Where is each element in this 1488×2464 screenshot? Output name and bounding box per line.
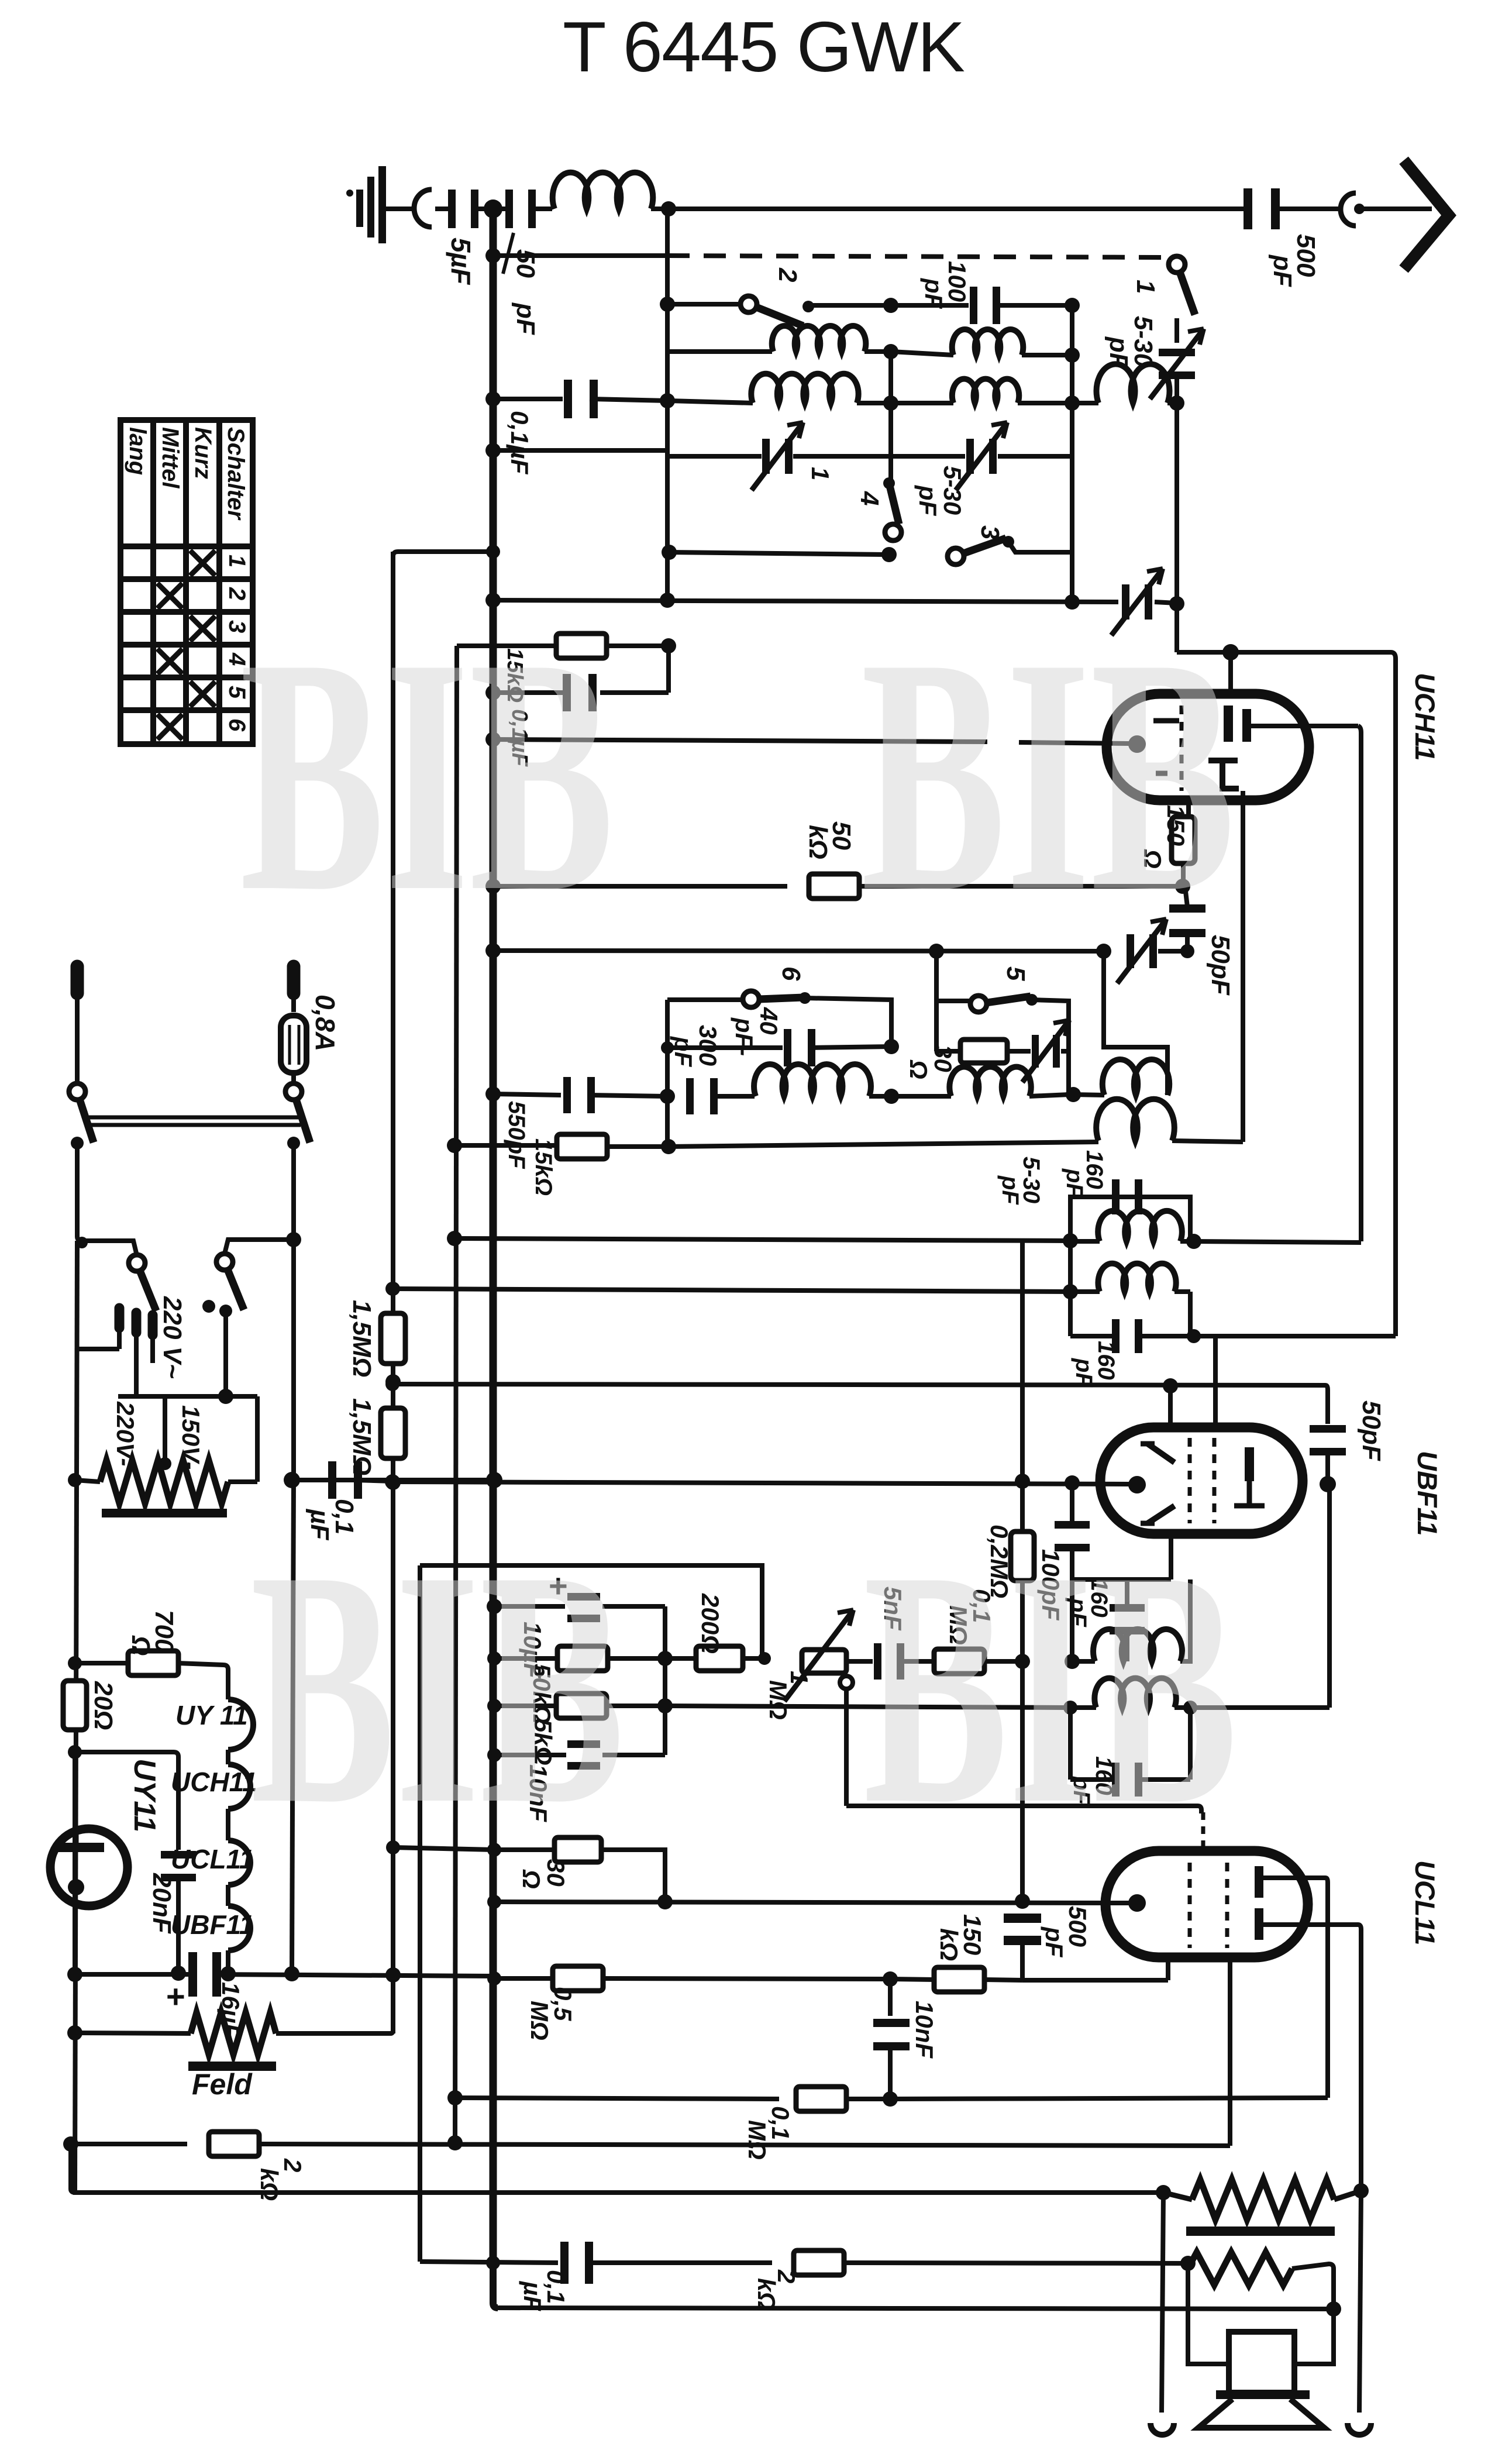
wire y2530 left [292,1478,329,1482]
junction x128 y2843 [68,1656,82,1670]
svg-text:5-30: 5-30 [939,466,966,515]
wire hook to capacitor 5uF [435,207,454,211]
wire y601 left [667,349,772,354]
svg-text:UBF11: UBF11 [1412,1451,1443,1536]
UY11 anode stem [74,1830,79,1844]
wire switch6 corner [805,998,891,1044]
wire 50k to x2022 [859,884,1183,889]
ift2 left vertical [1068,1241,1073,1292]
junction x1523 y601 [864,349,887,354]
svg-text:Feld: Feld [192,2068,253,2101]
wire bus to 10nF [494,1753,566,1757]
UCH11 triode cathode vertical [1241,791,1245,1142]
svg-text:UCH11: UCH11 [171,1767,257,1797]
svg-text:150V-: 150V- [177,1405,205,1470]
capacitor 500pF antenna [1244,188,1280,229]
wire y3385 cathode row [1022,1978,1168,1983]
wire switch3 to x1833 [1008,542,1072,552]
wire x440 down [255,1396,260,1482]
UCH11 top cap stub [1228,652,1233,697]
mains switch right [285,1083,310,1142]
ground symbol [346,166,386,243]
junction x1141 y685 [660,393,675,408]
svg-text:lang: lang [125,427,150,475]
wire fuse to switch [291,1073,296,1082]
junction x1141 y1026 [660,593,675,608]
wire trimmer to x1833 [998,454,1072,459]
vertical x1748 upper [1020,1240,1025,1481]
svg-text:pF: pF [920,278,948,309]
svg-text:300: 300 [694,1025,722,1066]
capacitor 10nF coupling [888,1979,893,2016]
resistor 0,1M af [934,1649,984,1674]
mains plug pin left [71,966,84,993]
junction x1748 y2532 [1015,1474,1030,1489]
svg-text:UY 11: UY 11 [175,1700,248,1730]
junction x2001 y2369 [1163,1378,1178,1393]
ift3 top side [1072,1577,1171,1582]
svg-text:UCH11: UCH11 [1410,673,1441,761]
UCL11 pentode anode wire [1258,1878,1328,2098]
bus y3665 left [71,2142,187,2146]
antenna arrow [1404,160,1449,269]
svg-text:pF-: pF- [731,1017,758,1056]
wire 10nF to x1137 [602,1753,665,1757]
wire 0,1M to x1522 [846,2097,890,2101]
wire secondary corner [1292,2264,1334,2364]
junction x1137 y2835 [657,1651,673,1666]
ift3 primary right riser [1180,1579,1190,1661]
wire 50pF to y1626 [1185,931,1190,951]
vertical x1833 column [1070,305,1074,602]
wire y2306 left link [75,1347,119,1351]
capacitor 10nF avc [567,1740,600,1770]
wire ift2 to anode [1194,1241,1361,1243]
svg-text:BIB: BIB [250,1502,625,1874]
UBF11 cathode to ift3 [1169,1534,1173,1579]
junction x1522 y3588 [883,2091,898,2107]
wire y1115 top [1177,650,1391,655]
wire y601 mid [891,352,953,355]
capacitor 20nF [161,1851,196,1881]
trimmer 5-30pF antenna [1159,349,1195,379]
wire 550pF to x1141 [588,1095,666,1096]
junction x121 y3665 [63,2136,78,2152]
wire trimmer to x2030 [1158,949,1187,954]
ift3 primary coil [1072,1659,1095,1664]
ballast resistor zigzag [100,1460,228,1503]
ift3 secondary coil [1070,1705,1096,1710]
junction x1748 y3250 [1015,1894,1030,1909]
junction x2012 y689 [1169,395,1184,411]
junction bus y682 [485,391,501,407]
ift2 secondary frame [1068,1292,1073,1336]
wire y3588 to anode [890,2098,1328,2099]
vertical x2012 y689-y1032 [1174,403,1179,604]
resistor 5k [494,1704,556,1708]
volume potentiometer 1M [802,1650,846,1673]
corner x2270 down [1325,1385,1328,1424]
wire y2387 row [118,1394,257,1399]
svg-text:pF: pF [670,1036,697,1068]
wire 10uF to x1137 [602,1604,665,1609]
ift2 primary coil [1070,1239,1100,1244]
output transformer primary [1163,2193,1192,2200]
junction x1141 y944 [662,545,677,560]
junction x1833 y522 [1065,298,1080,313]
wire 50k to x1137 [608,1656,665,1661]
ift1 coil B [1096,1099,1174,1141]
wire below switch1 [1174,318,1179,343]
svg-text:20Ω: 20Ω [89,1681,118,1730]
ift2 cap 160pF [1112,1179,1142,1214]
speaker magnet bar [1216,2390,1310,2399]
resistor 2k tone [794,2250,844,2275]
capacitor 0,1uF output [560,2242,593,2284]
resistor 700R [75,1661,129,1665]
wire 500pF to lead-in hook [1272,207,1341,211]
terminal hook right [1348,2423,1371,2435]
bus y3375 left [75,1972,195,1977]
resistor 1,5M upper [381,1313,405,1364]
junction x777 y2117 [447,1231,462,1246]
UCL11 grid top dashes [1201,1812,1205,1849]
junction bus y437 [485,248,501,263]
junction x1141 y1874 [660,1089,675,1104]
resistor 150R [1172,817,1195,863]
junction x672 y2533 [385,1475,401,1490]
ift1 coil A [1073,1095,1104,1095]
switch 2 [740,296,803,326]
wire x128 through tube [73,1752,77,1974]
junction UBF11 anode right [1320,1476,1336,1492]
left mains down to selector [77,1143,137,1255]
rf coil row1 right [952,329,1024,355]
heater bump UBF11 [228,1906,250,1950]
svg-text:1: 1 [224,555,250,567]
antenna coupling hook [414,190,432,227]
junction x1833 y2840 [1065,1654,1080,1669]
switch 6 [743,991,804,1007]
vertical x778 long [455,646,457,2144]
capacitor 5nF [874,1643,904,1680]
selector switch left [129,1255,156,1311]
wire cap to 2k [586,2260,772,2265]
wire 5nF to 0,1M [898,1659,935,1664]
wire y1515 [493,884,787,889]
wire y685 to coil [667,401,753,403]
wire cap to x1141 [590,399,667,401]
svg-text:UCL11: UCL11 [171,1844,254,1874]
vertical x1989 to hook [1162,2193,1163,2413]
capacitor 300pF [686,1078,718,1114]
left vertical x128 long [75,1241,77,2193]
junction x1833 y1029 [1065,594,1080,610]
heater bump UCH11 [228,1764,250,1809]
junction x2022 y1515 [1175,879,1190,894]
wire 50pF to tube [1325,1451,1330,1484]
wire switch2 to x1523 [808,303,887,308]
wire y1104 from x781 [457,643,555,648]
wire x1748 to 0,2M [1020,1481,1025,1532]
speaker cone [1198,2399,1324,2428]
transformer tap stubs [115,1308,125,1328]
oscillator coil second [949,1067,1031,1096]
selector switch right [216,1254,244,1310]
grid wire y3251 [494,1902,1129,1903]
ift3 lower cap frame [1068,1708,1073,1780]
junction x2280 y3947 [1326,2301,1341,2317]
resistor 15k padder [557,1134,607,1159]
terminal hook left [1151,2423,1174,2435]
junction x390 y3374 [221,1966,236,1981]
wire y780 to varcap1 [667,454,762,459]
junction x1523 y689 [857,401,887,405]
wire varcap1 to x1523 [793,454,891,459]
wire coilA right riser [1104,951,1167,1095]
UCH11 triode anode bar [1242,709,1251,742]
wire 20nF to bus [176,1875,181,1974]
rf coil row2 small [1072,401,1098,405]
wire zigzag to x440 [228,1479,257,1484]
capacitor 100pF [970,287,1000,324]
wire y1791 [667,1045,783,1050]
band switch table [120,420,253,744]
rf coil row1 left [772,326,866,352]
pot wiper terminal [840,1676,853,1689]
contact dot switch2 [802,301,814,312]
wire 15k to x1143 [608,643,669,648]
tap dots [202,1300,215,1313]
vertical x1523 column [888,352,893,483]
wire x2012 to row y1115 [1174,604,1179,652]
main bus vertical x843 [490,209,497,2266]
wire 0,2M to y2840 [1020,1581,1025,1661]
grid wire y2534 [392,1482,1129,1484]
wire ift3 to diode [1190,1705,1329,1710]
wire pot to 5nF [846,1659,873,1664]
wire 2k to transformer [843,2263,1186,2263]
wire y2919 to ift3 [665,1706,1067,1708]
wire coil2 to x1830 [1029,1095,1069,1096]
resistor 150k [890,1979,935,1980]
junction bus y1870 [485,1086,501,1102]
heater bump UY11 [228,1699,253,1750]
resistor 1,5M lower [381,1408,405,1458]
wire y2284 to x2386 [1194,1334,1396,1338]
vertical x1137 avc net [663,1606,667,1755]
wire y1958 [454,1143,556,1148]
junction x671 y2203 [385,1282,399,1296]
wire 40pF to x1524 [808,1047,891,1048]
wire small coil to x2012 [1167,401,1177,405]
svg-text:UCL11: UCL11 [1410,1860,1441,1945]
junction x1523 y522 [883,298,898,313]
mains plug pin right [287,966,301,993]
svg-text:MΩ: MΩ [526,2001,553,2040]
svg-text:BIB: BIB [861,589,1235,961]
junction x2030 y1626 [1180,944,1194,958]
wire y1958 to ift1 [669,1142,1098,1147]
svg-text:30: 30 [929,1045,957,1072]
branch to selector right [225,1240,294,1254]
junction x499 y3374 [284,1966,299,1981]
wire 50pF to coil L1 [529,207,552,211]
outer loop vertical x2386 [1391,652,1396,1336]
secondary zigzag [1188,2252,1292,2285]
wire x282 tap to zigzag [163,1396,167,1462]
junction x1830 y2121 [1063,1233,1078,1248]
wire 5uF to node A [471,207,485,211]
vertical x2031 to box [1188,2263,1229,2364]
heater wire seg3 [226,1885,230,1906]
junction bus y3382 [487,1971,501,1985]
table crosses [190,550,215,576]
svg-text:200Ω: 200Ω [697,1593,724,1654]
UCH11 cathode lead [1186,800,1191,818]
ift2 secondary coil [1070,1289,1100,1294]
svg-text:Ω: Ω [126,1635,155,1656]
UCH11 grid dashes [1180,706,1184,791]
wire ballast left [75,1480,100,1482]
junction x1833 y2535 [1065,1475,1080,1491]
wire bus to x1141 y437 [493,253,667,258]
corner x121 bottom [71,2144,75,2193]
UCH11 anode wire right [1251,724,1358,728]
UCL11 screen vertical [1228,1959,1232,2146]
label 50pF leader [503,233,514,274]
capacitor 0,1uF rf [564,380,598,418]
junction x1141 y1791 [661,1041,674,1054]
wire x386 tap down [223,1311,228,1396]
wire y944 [669,552,887,555]
bus y3375 right [214,1974,494,1976]
vertical x718 [418,1565,422,2262]
antenna coil L1 [553,173,653,209]
switch 1 wave change [1169,256,1195,315]
row y3868 from x718 [420,2262,558,2263]
vertical x499 long [292,1480,294,1974]
svg-text:BIB: BIB [240,589,614,961]
svg-text:1,5MΩ: 1,5MΩ [347,1398,376,1475]
svg-text:pF: pF [997,1175,1023,1205]
wire y3588 [455,2098,779,2099]
switch 5 [970,996,1031,1012]
svg-text:3: 3 [976,525,1004,539]
long wire y1029 [493,600,1118,602]
UBF11 grid stub from ift2 [1213,1336,1218,1430]
svg-text:1,5MΩ: 1,5MΩ [347,1300,376,1377]
wire 150R to y1515 [1181,863,1186,886]
svg-text:4: 4 [855,491,884,505]
resistor 50k [809,874,859,899]
svg-text:pF: pF [1062,1168,1087,1198]
wire 0,5M to x1522 [602,1978,890,1979]
junction x1524 y1789 [884,1039,899,1054]
junction ift2 left lower [1063,1284,1078,1299]
svg-text:550pF: 550pF [504,1101,529,1169]
resistor 2k cathode [209,2132,259,2156]
wire y2746 to 10uF [494,1604,565,1609]
junction x672 y3376 [385,1967,401,1983]
capacitor 550pF [563,1077,595,1113]
wire x672 to 30R row [393,1847,494,1850]
svg-text:1: 1 [1131,280,1160,294]
UY11 cathode bar [57,1843,104,1852]
capacitor 0,1uF screen [563,674,597,711]
ift3 cap 160pF lower [1112,1763,1142,1797]
svg-text:10nF: 10nF [911,2001,938,2059]
wire ground to hook [386,207,416,211]
UCL11 grid dashes inner [1188,1863,1192,1948]
svg-text:220V-: 220V- [112,1401,139,1467]
long wire y1626 [493,951,1103,951]
vertical x672 long [391,552,395,2033]
svg-text:Mittel: Mittel [157,427,183,488]
svg-text:UBF11: UBF11 [171,1909,254,1940]
wire y943 branch [393,552,493,556]
capacitor 0,1uF avc [328,1461,362,1499]
svg-text:Ω: Ω [905,1059,932,1079]
capacitor 50pF ubf plate [1310,1425,1346,1455]
ift3 cap 160pF [1125,1579,1129,1606]
wire cap to bus [493,690,571,695]
corner x672 y3476 [391,2030,393,2033]
anode vertical x2327 [1358,726,1361,1241]
junction x778 y3586 [447,2090,463,2105]
junction x2041 y2284 [1187,1329,1201,1343]
wire y1184 to cap [600,690,669,695]
switch 4 [883,477,895,489]
resistor 0,5M [553,1966,603,1991]
wire hook to antenna [1364,207,1432,211]
junction ift3 secondary left [1063,1701,1077,1715]
UCL11 anode bars [1255,1866,1263,1898]
wire 500pF to y3385 [1020,1943,1025,1980]
wire to cap 100pF [891,303,969,308]
junction x128 y2995 [68,1745,82,1759]
junction x1137 y2916 [657,1698,673,1713]
UCL11 cathode down [1166,1957,1170,1980]
wire bus to cap 0,1uF [493,397,563,401]
wire cap to x671 [354,1480,392,1481]
UCH11 hexode grids [1153,721,1179,773]
junction x128 y3375 [67,1967,82,1982]
wire switch5 right [1032,1000,1069,1092]
UBF11 cathode stub up [1168,1386,1173,1430]
wire to field coil [75,2033,191,2033]
junction bus y2746 [487,1599,502,1614]
junction x672 y3158 [386,1840,400,1854]
bus vertical corner to y3945 [493,2263,498,2308]
junction x1748 y2840 [1015,1654,1030,1669]
junction top-cap UCH11 [1222,644,1239,660]
wire 15k to x1143 [608,1144,669,1149]
wire y2205 row to ift2 secondary [392,1289,1070,1292]
resistor 200R [665,1656,696,1661]
wire y2117 row to ift2 primary [454,1238,1070,1241]
junction bus y2530 [486,1472,502,1488]
UBF11 grid dashes [1188,1438,1192,1523]
junction x499 y2530 [284,1472,300,1488]
wire trimmer to node y689 [1174,379,1179,403]
svg-text:+: + [166,1978,185,2015]
svg-text:pF: pF [1041,1926,1068,1958]
junction x671 y2366 [385,1377,399,1391]
heater wire seg1 [226,1750,230,1764]
resistor 20R [63,1681,87,1730]
svg-text:Kurz: Kurz [190,427,216,479]
